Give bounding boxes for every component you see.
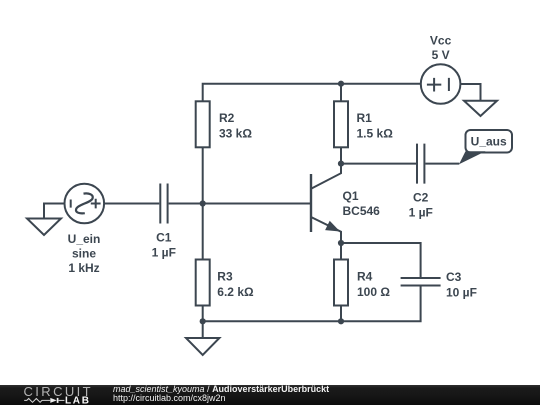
svg-text:C2: C2 <box>413 191 429 205</box>
svg-text:U_aus: U_aus <box>471 135 507 149</box>
svg-text:1 µF: 1 µF <box>409 206 433 220</box>
svg-text:100 Ω: 100 Ω <box>357 285 390 299</box>
svg-text:C1: C1 <box>156 231 172 245</box>
svg-text:R1: R1 <box>357 111 373 125</box>
svg-text:Q1: Q1 <box>343 189 359 203</box>
svg-text:1 µF: 1 µF <box>152 246 176 260</box>
svg-text:10 µF: 10 µF <box>446 286 477 300</box>
svg-text:6.2 kΩ: 6.2 kΩ <box>217 285 254 299</box>
svg-text:1 kHz: 1 kHz <box>68 261 99 275</box>
svg-text:5 V: 5 V <box>432 48 450 62</box>
svg-text:R4: R4 <box>357 270 373 284</box>
svg-text:C3: C3 <box>446 270 462 284</box>
svg-text:sine: sine <box>72 247 96 261</box>
svg-text:U_ein: U_ein <box>68 232 101 246</box>
svg-text:R3: R3 <box>217 270 233 284</box>
svg-text:Vcc: Vcc <box>430 34 452 48</box>
svg-text:33 kΩ: 33 kΩ <box>219 127 252 141</box>
svg-text:BC546: BC546 <box>343 204 381 218</box>
svg-text:LAB: LAB <box>65 396 91 405</box>
svg-text:R2: R2 <box>219 111 235 125</box>
svg-text:1.5 kΩ: 1.5 kΩ <box>357 127 394 141</box>
